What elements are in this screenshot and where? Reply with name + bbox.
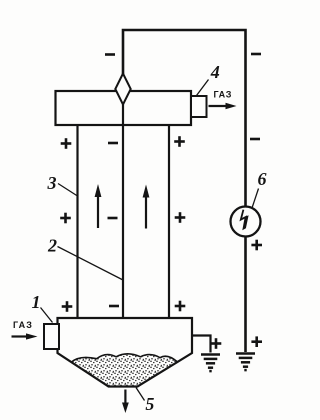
corona wire weight dot <box>121 350 127 356</box>
svg-text:2: 2 <box>47 235 57 255</box>
gas outlet nozzle 4 <box>191 96 207 117</box>
leader for label 3 <box>58 184 78 197</box>
svg-text:ГАЗ: ГАЗ <box>13 320 33 330</box>
insulator diamond on header <box>115 74 130 105</box>
ground (bin) <box>201 355 220 372</box>
ground (right leg) <box>236 354 255 371</box>
minus at right leg mid <box>250 138 260 140</box>
minus at right leg top <box>251 53 261 55</box>
leader for label 2 <box>58 247 124 281</box>
svg-text:5: 5 <box>145 394 154 414</box>
dust layer <box>71 354 177 387</box>
gas flow arrow left channel <box>97 196 99 229</box>
svg-text:6: 6 <box>258 169 267 189</box>
svg-text:4: 4 <box>210 62 220 82</box>
leader for label 1 <box>41 308 53 323</box>
plus column right <box>174 136 185 147</box>
plus at right ground <box>251 336 262 347</box>
right collecting electrode wall <box>168 125 170 318</box>
bin ground wire <box>192 336 211 353</box>
plus below source <box>251 240 262 251</box>
left collecting electrode wall 3 <box>76 125 78 319</box>
gas in arrow <box>12 335 28 337</box>
dust top outline <box>71 354 177 363</box>
HV source circle 6 <box>231 207 261 237</box>
gas flow arrow right channel <box>145 196 147 229</box>
svg-text:1: 1 <box>32 292 41 312</box>
minus at HV wire top left <box>105 54 115 56</box>
top collector header box <box>56 91 192 125</box>
gas out arrow <box>209 105 228 107</box>
leader for label 5 <box>136 388 145 401</box>
svg-text:ГАЗ: ГАЗ <box>214 90 232 100</box>
leader for label 6 <box>252 189 259 209</box>
gas inlet nozzle 1 <box>44 324 59 349</box>
right leg lower wire <box>244 237 247 353</box>
svg-text:3: 3 <box>47 173 57 193</box>
plus column left <box>61 138 72 149</box>
corona wire (center electrode) <box>122 105 124 351</box>
minus column center <box>108 142 118 144</box>
collector bin with hopper <box>58 318 193 387</box>
dust discharge arrow <box>124 390 126 404</box>
leader for label 4 <box>197 80 209 96</box>
lightning bolt in source <box>241 210 248 220</box>
plus at bin ground <box>211 338 222 349</box>
wire: top HV bus from corona wire to right leg <box>123 30 246 207</box>
